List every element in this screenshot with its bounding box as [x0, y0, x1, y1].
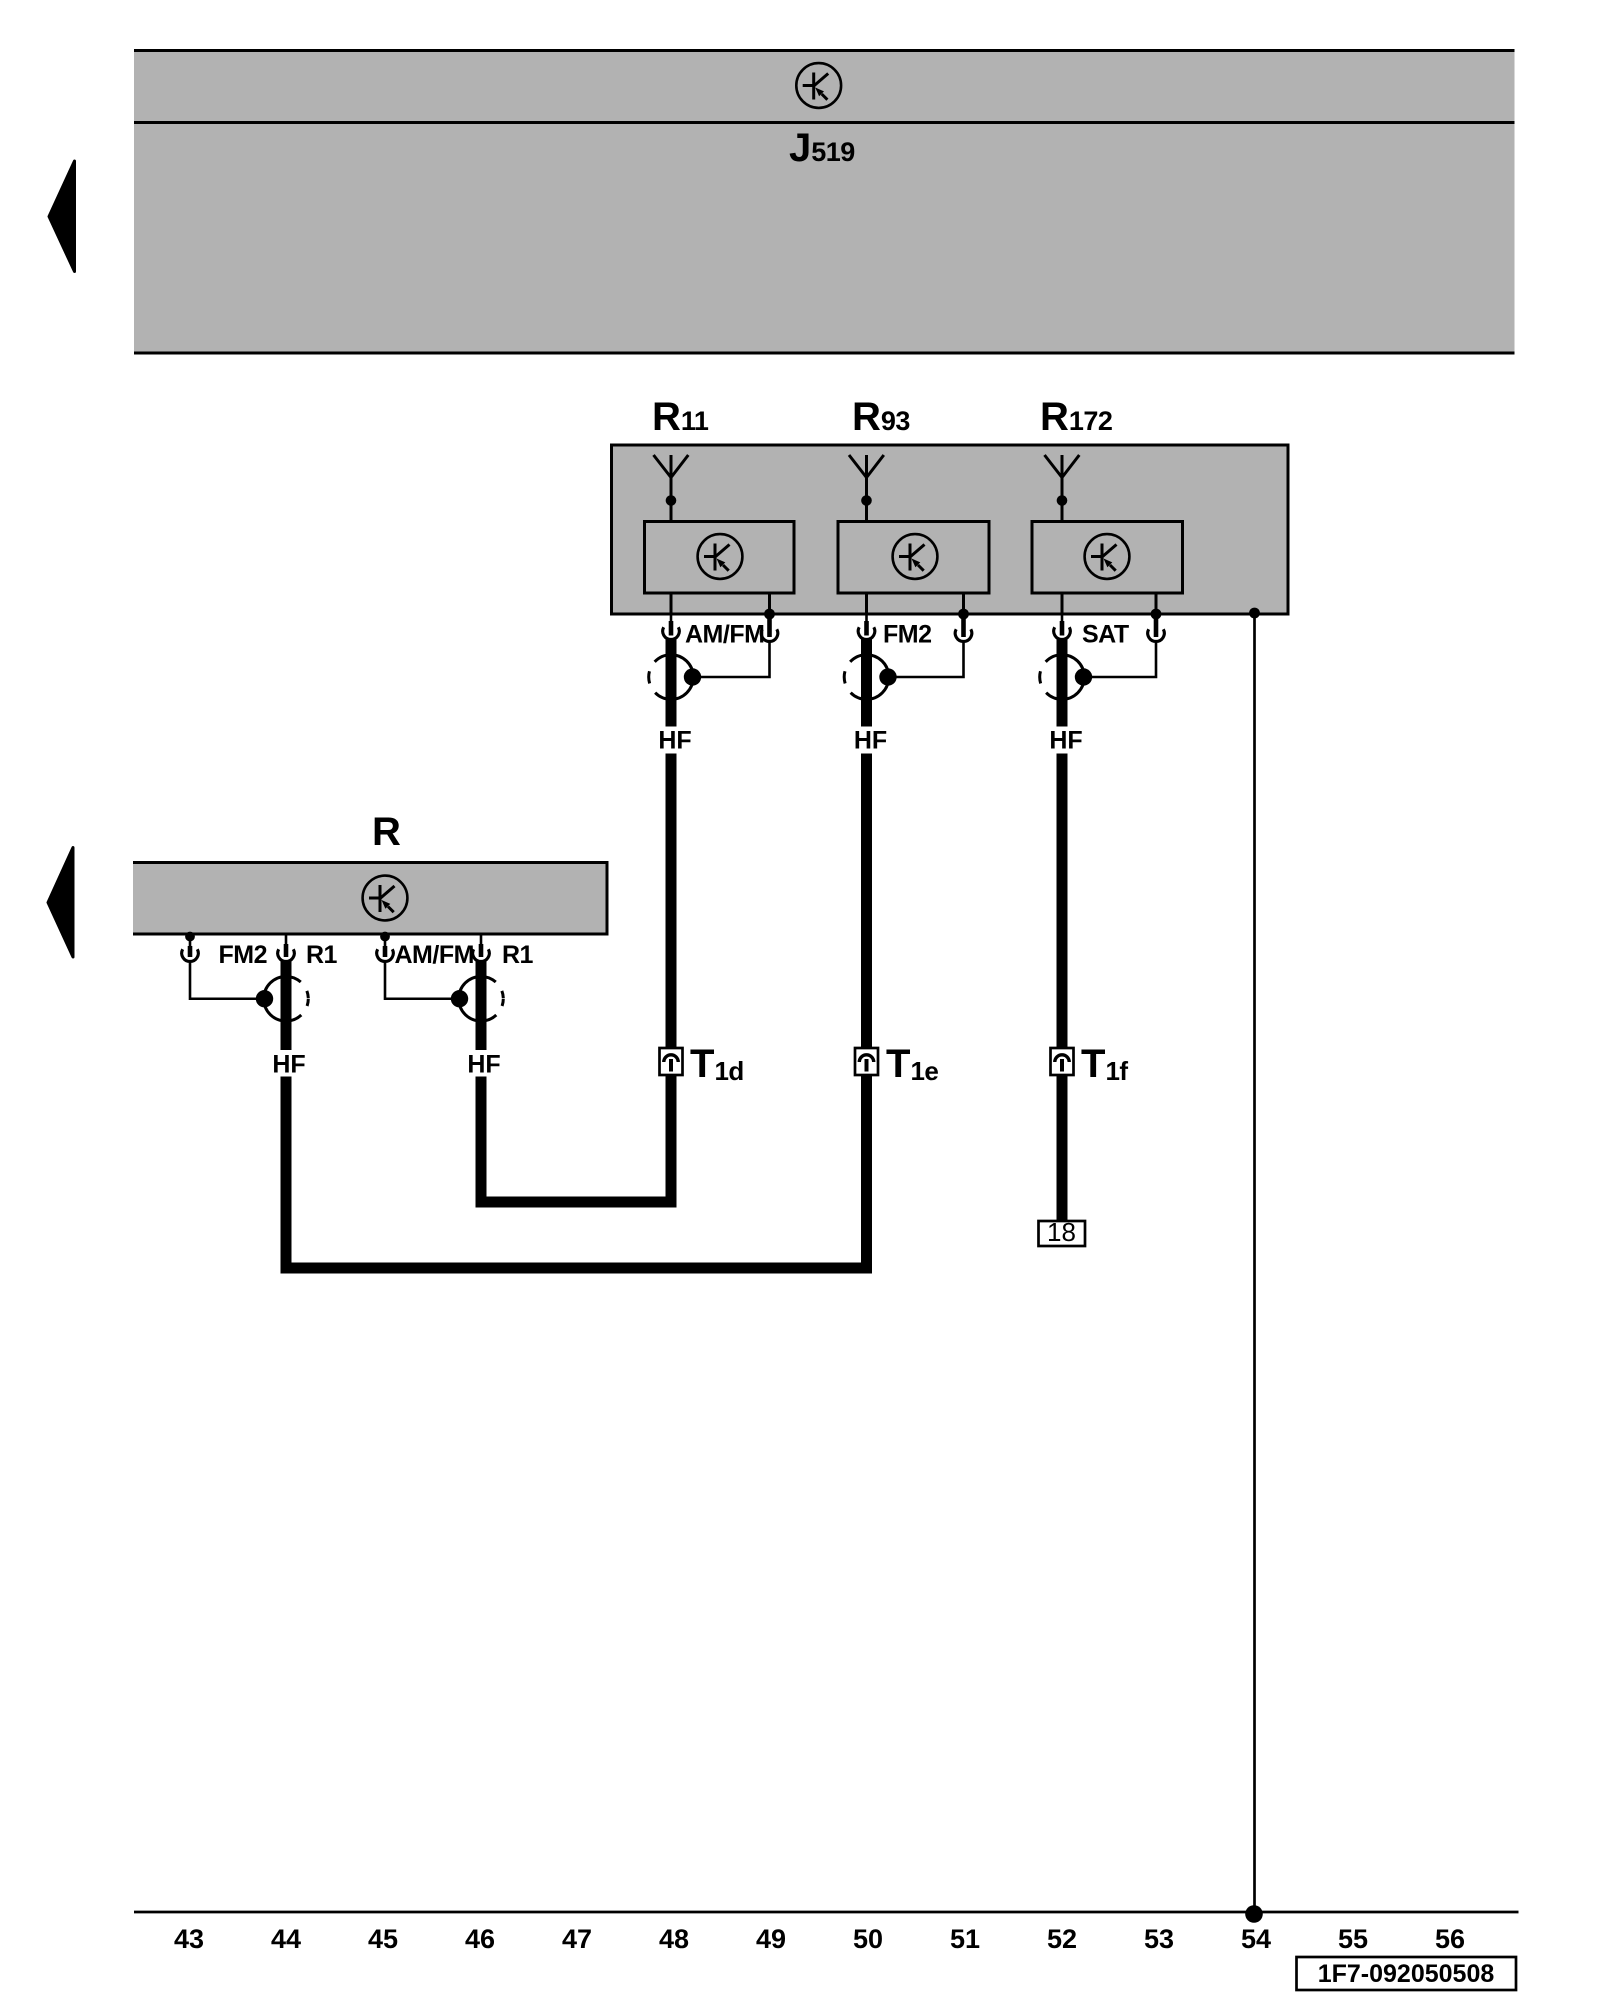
shield R11 [649, 655, 702, 700]
symbol: control unit icon R93 [893, 534, 938, 579]
wire antenna R11 to amplifier [670, 501, 673, 522]
amplifier box R93 [838, 522, 989, 594]
direction arrow lower left [48, 848, 73, 958]
svg-text:47: 47 [562, 1924, 592, 1954]
svg-text:HF: HF [272, 1051, 305, 1079]
coax wire radio R1 right to T1d (routed) [481, 1077, 677, 1208]
connector T1d [660, 1048, 683, 1075]
wire shield R93 to pin [888, 642, 964, 677]
connector T1f [1051, 1048, 1074, 1075]
shield R172 [1040, 655, 1093, 700]
pin R1 left (radio) [278, 936, 295, 962]
svg-text:HF: HF [658, 727, 691, 755]
junction + pin AM/FM (radio) [377, 932, 394, 962]
junction + pin R172 shield [1148, 609, 1165, 642]
svg-text:56: 56 [1435, 1924, 1465, 1954]
wire antenna R172 to amplifier [1061, 501, 1064, 522]
antenna R11 [654, 455, 689, 506]
svg-text:50: 50 [853, 1924, 883, 1954]
antenna amplifier module box [612, 445, 1289, 614]
svg-text:HF: HF [467, 1051, 500, 1079]
symbol: control unit icon R172 [1085, 534, 1130, 579]
node: junction track 54 on rail [1245, 1905, 1263, 1923]
current track rail [134, 1911, 1519, 1914]
coax wire R172 column down through T1f [1057, 754, 1068, 1223]
connector pin AM/FM out [663, 614, 680, 639]
wire amplifier R93 output [865, 593, 868, 614]
terminal 18 box [1039, 1221, 1086, 1246]
symbol: control unit icon R [363, 876, 408, 921]
control unit J519 box [134, 49, 1515, 355]
svg-text:18: 18 [1047, 1217, 1076, 1247]
shield (radio right) [451, 976, 504, 1021]
amplifier box R172 [1032, 522, 1183, 594]
coax wire R93 column down to T1e [861, 754, 872, 1274]
svg-text:R1: R1 [306, 941, 338, 969]
svg-text:43: 43 [174, 1924, 204, 1954]
wire shield R172 to pin [1084, 642, 1157, 677]
svg-text:AM/FM: AM/FM [685, 621, 764, 649]
wire amplifier R11 output [670, 593, 673, 614]
connector pin SAT out [1054, 614, 1071, 639]
node: junction on module box edge track 54 [1249, 608, 1260, 619]
wire antenna R93 to amplifier [865, 501, 868, 522]
coax wire R1 right upper [476, 961, 487, 1050]
junction + pin R93 shield [955, 609, 972, 642]
coax wire HF R93 upper [861, 639, 872, 727]
svg-text:46: 46 [465, 1924, 495, 1954]
radio R box [133, 861, 609, 936]
svg-text:52: 52 [1047, 1924, 1077, 1954]
wire FM2 pin to shield dot [190, 962, 264, 999]
shield R93 [844, 655, 897, 700]
junction + pin R11 shield [761, 609, 778, 642]
wire amplifier R11 shield pin [768, 593, 771, 614]
wire amplifier R172 output [1061, 593, 1064, 614]
svg-text:HF: HF [1049, 727, 1082, 755]
svg-text:48: 48 [659, 1924, 689, 1954]
wire AM/FM pin to shield dot [385, 962, 459, 999]
amplifier box R11 [645, 522, 795, 594]
coax wire HF R172 upper [1057, 639, 1068, 727]
antenna R93 [849, 455, 884, 506]
wire amplifier R93 shield pin [962, 593, 965, 614]
svg-text:SAT: SAT [1082, 621, 1129, 649]
symbol: control unit icon R11 [698, 534, 743, 579]
wire shield R11 to pin [693, 642, 770, 677]
svg-text:51: 51 [950, 1924, 980, 1954]
antenna R172 [1045, 455, 1080, 506]
direction arrow upper left [49, 161, 75, 272]
coax wire R11 column down to T1d [666, 754, 677, 1208]
svg-text:HF: HF [854, 727, 887, 755]
svg-text:49: 49 [756, 1924, 786, 1954]
connector T1e [855, 1048, 878, 1075]
wire track 54 down to rail [1253, 614, 1256, 1912]
junction + pin FM2 (radio) [182, 932, 199, 962]
pin R1 right (radio) [473, 936, 490, 962]
coax wire R1 left upper [281, 961, 292, 1050]
svg-text:45: 45 [368, 1924, 398, 1954]
svg-text:44: 44 [271, 1924, 301, 1954]
svg-text:FM2: FM2 [219, 941, 268, 969]
svg-text:AM/FM: AM/FM [395, 941, 474, 969]
diagram id box [1297, 1957, 1517, 1990]
svg-text:FM2: FM2 [883, 621, 932, 649]
symbol: control unit icon J519 [796, 63, 841, 108]
connector pin FM2 out [858, 614, 875, 639]
track numbers 43-56 [174, 1924, 1465, 1954]
svg-text:R: R [372, 810, 401, 854]
coax wire radio R1 left to T1e (routed) [286, 1077, 872, 1274]
svg-text:55: 55 [1338, 1924, 1368, 1954]
svg-text:53: 53 [1144, 1924, 1174, 1954]
shield (radio left) [256, 976, 308, 1021]
svg-text:54: 54 [1241, 1924, 1271, 1954]
svg-text:R1: R1 [502, 941, 534, 969]
wire amplifier R172 shield pin [1155, 593, 1158, 614]
svg-text:1F7-092050508: 1F7-092050508 [1318, 1960, 1495, 1988]
coax wire HF R11 upper [666, 639, 677, 727]
